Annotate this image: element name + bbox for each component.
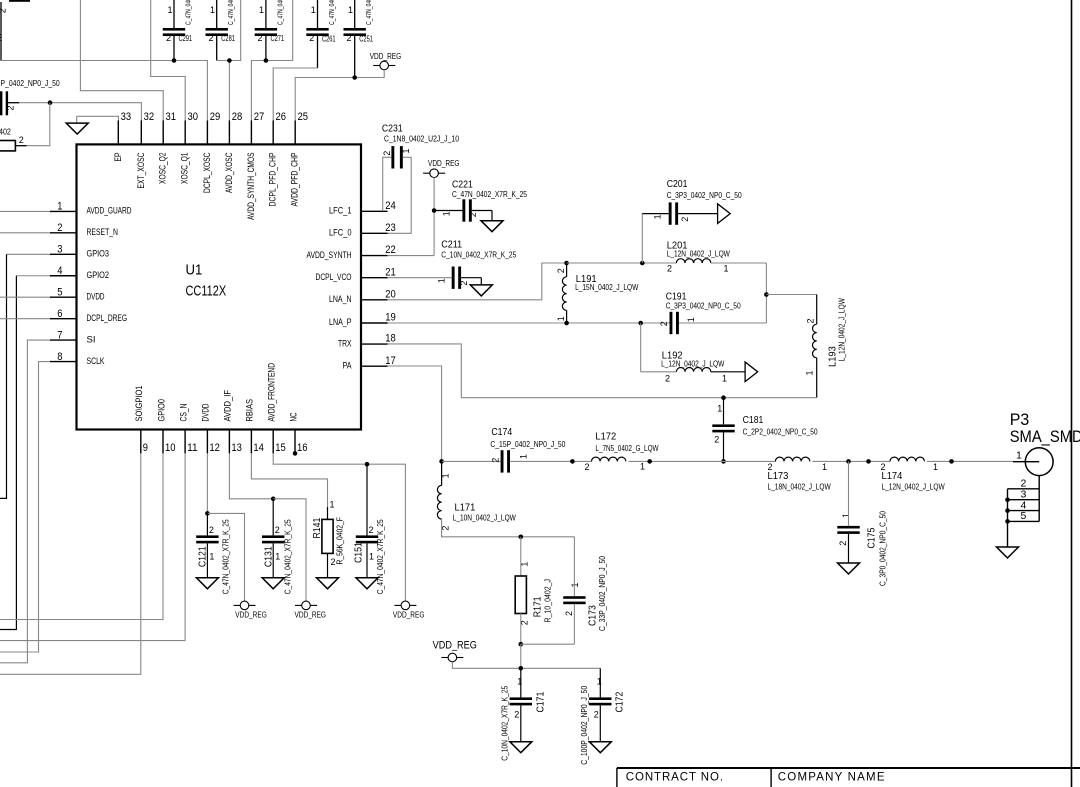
svg-text:12: 12 [209,442,220,454]
svg-text:L_7N5_0402_G_LQW: L_7N5_0402_G_LQW [595,444,659,453]
ground (C121) [196,578,218,589]
svg-text:2: 2 [490,458,500,463]
svg-text:AVDD_SYNTH_CMOS: AVDD_SYNTH_CMOS [246,153,256,221]
svg-text:XOSC_Q1: XOSC_Q1 [180,153,190,185]
svg-text:13: 13 [231,442,242,454]
junction R171 bottom [519,642,524,647]
junction XOSC node [48,100,53,105]
svg-text:1: 1 [330,500,335,510]
power symbol VDD_REG (under C121) [234,604,241,606]
svg-text:AVDD_SYNTH: AVDD_SYNTH [307,250,352,260]
svg-text:30: 30 [188,111,199,123]
ground (C172) [589,742,611,753]
svg-text:CC112X: CC112X [186,283,227,300]
svg-text:17: 17 [385,355,396,367]
svg-text:8: 8 [57,351,62,363]
svg-text:L_12N_0402_J_LQW: L_12N_0402_J_LQW [882,483,946,492]
svg-text:VDD_REG: VDD_REG [428,158,460,168]
svg-text:1: 1 [369,552,374,562]
svg-text:VDD_REG: VDD_REG [235,610,266,620]
svg-text:2: 2 [346,33,351,43]
svg-text:1: 1 [722,373,727,383]
U1 right pin stubs [361,210,388,212]
svg-text:L173: L173 [768,471,789,482]
ground (C175) [838,563,860,574]
svg-text:1: 1 [441,211,451,216]
svg-text:C231: C231 [382,123,403,134]
svg-text:25: 25 [298,111,309,123]
svg-text:C291: C291 [179,34,193,43]
svg-text:2: 2 [0,32,3,44]
U1 top pin stubs [117,120,119,144]
ground (C151) [356,578,378,589]
svg-text:VDD_REG: VDD_REG [370,51,402,61]
svg-text:1: 1 [841,513,851,518]
svg-text:2: 2 [257,33,262,43]
P3 shield pins 2-5 [1038,476,1040,522]
svg-text:33: 33 [121,111,132,123]
svg-text:C201: C201 [667,179,688,190]
svg-text:R171: R171 [532,596,543,617]
wire pin 33 EP to ground [77,116,119,120]
wire pin 3 GPIO3 [7,253,51,255]
wire to VDD_REG (C121) [207,513,244,601]
wire pin 18 TRX net [388,344,817,398]
svg-text:C_1N8_0402_U2J_J_10: C_1N8_0402_U2J_J_10 [384,135,459,144]
svg-text:1: 1 [348,5,353,15]
junction PA node [439,459,444,464]
wire pin 20 LNA_N to L191 top [388,263,567,300]
svg-text:DCPL_PFD_CHP: DCPL_PFD_CHP [268,153,278,207]
svg-text:1: 1 [311,5,316,15]
svg-text:1: 1 [167,5,172,15]
svg-text:LNA_N: LNA_N [329,294,352,304]
wire L192 branch down [640,323,642,372]
svg-text:29: 29 [210,111,221,123]
wire pin 31 XOSC_Q2 net [80,0,163,120]
svg-text:C_3P3_0402_NP0_C_50: C_3P3_0402_NP0_C_50 [666,302,741,311]
U1 left pin stubs [50,210,77,212]
title block [617,767,1080,769]
svg-text:C_47N_0402_X7R_K_25: C_47N_0402_X7R_K_25 [376,519,385,594]
ground (P3) [997,547,1019,558]
svg-text:1: 1 [519,454,529,459]
junction C131 [271,497,276,502]
svg-text:DVDD: DVDD [87,291,105,301]
svg-text:5: 5 [57,286,62,298]
svg-text:18: 18 [385,333,396,345]
svg-text:C131: C131 [263,546,274,567]
svg-text:L174: L174 [882,471,903,482]
svg-text:7: 7 [57,329,62,341]
svg-text:C_33P_0402_NP0_J_50: C_33P_0402_NP0_J_50 [598,556,607,631]
svg-text:28: 28 [232,111,243,123]
svg-text:1: 1 [805,370,815,375]
capacitor C121 [206,513,208,535]
junction under C291 [172,58,177,63]
svg-text:2: 2 [594,710,599,720]
svg-text:DCPL_XOSC: DCPL_XOSC [202,152,212,193]
wire pin 4 GPIO2 [16,275,50,277]
svg-text:1: 1 [556,316,566,321]
capacitor C151 [366,464,368,535]
svg-text:3: 3 [57,244,62,256]
svg-text:2: 2 [309,33,314,43]
svg-text:11: 11 [187,442,198,454]
svg-text:C_47N_0402_X7R_K_25: C_47N_0402_X7R_K_25 [277,0,284,25]
svg-text:24: 24 [385,200,396,212]
svg-text:1: 1 [517,677,522,687]
svg-text:C151: C151 [354,542,365,563]
wire LNA_N line to L201/C201 [567,262,677,264]
svg-text:VDD_REG: VDD_REG [433,639,477,651]
svg-text:R_10_0402_J: R_10_0402_J [543,579,552,623]
junction pin 28 [227,58,232,63]
svg-text:RBIAS: RBIAS [245,399,255,422]
junction L193 branch [764,292,769,297]
svg-text:1: 1 [570,582,580,587]
svg-text:L_12N_0402_J_LQW: L_12N_0402_J_LQW [837,298,846,362]
svg-text:2: 2 [806,318,816,323]
svg-text:32: 32 [144,111,155,123]
svg-text:C211: C211 [441,239,462,250]
wire VDD rail to pin 29 DCPL_XOSC [0,61,207,121]
wire pin 17 PA net [388,366,442,461]
svg-text:SO\GPIO1: SO\GPIO1 [134,386,144,422]
svg-text:2: 2 [514,710,519,720]
svg-text:L172: L172 [595,431,616,442]
junction C201 branch [640,261,645,266]
svg-text:L_15N_0402_J_LQW: L_15N_0402_J_LQW [575,283,639,292]
wire pin 28 AVDD_XOSC net [217,0,241,61]
svg-text:2: 2 [585,462,590,472]
junction C181 top [721,395,726,400]
svg-text:C174: C174 [491,427,512,438]
wire pin 14 RBIAS to R141 [251,453,327,507]
junction after L172 [647,459,652,464]
wire pin 30 XOSC_Q1 net [151,0,186,120]
svg-text:C221: C221 [452,179,473,190]
svg-text:LNA_P: LNA_P [329,317,352,327]
svg-text:1: 1 [822,462,827,472]
svg-text:C_47N_0402_X7R_K_25: C_47N_0402_X7R_K_25 [329,0,336,25]
svg-text:DCPL_VCO: DCPL_VCO [316,272,352,282]
wire pin 11 CS_N [0,453,185,640]
svg-text:31: 31 [166,111,177,123]
svg-text:2: 2 [838,541,848,546]
wire pin 5 DVDD [0,296,50,298]
svg-text:C_47N_0402_X7R_K_25: C_47N_0402_X7R_K_25 [452,190,527,199]
ground (C131) [262,578,284,589]
capacitor C261 [317,0,319,28]
svg-text:2: 2 [57,222,62,234]
op-amp U1 chip body CC112X [77,144,362,429]
svg-text:1: 1 [401,148,411,153]
svg-text:C_2P2_0402_NP0_C_50: C_2P2_0402_NP0_C_50 [743,428,818,437]
wire resistor to XOSC node [27,103,50,146]
svg-text:1: 1 [1016,449,1022,461]
svg-text:C121: C121 [198,546,209,567]
ground (C211) [480,278,482,285]
svg-text:2: 2 [680,217,690,222]
svg-text:XOSC_Q2: XOSC_Q2 [158,153,168,185]
svg-text:27: 27 [254,111,265,123]
capacitor C251 [354,0,356,28]
svg-text:L_12N_0402_J_LQW: L_12N_0402_J_LQW [661,360,725,369]
svg-text:VDD_REG: VDD_REG [393,610,425,620]
wire VDD_REG to pin 22 AVDD_SYNTH [433,178,435,256]
off-page connector (L192) [745,362,758,382]
svg-text:C171: C171 [535,691,546,712]
U1 bottom pin stubs [140,430,142,454]
svg-text:1: 1 [717,404,722,414]
svg-text:1: 1 [653,214,663,219]
svg-text:L_10N_0402_J_LQW: L_10N_0402_J_LQW [453,514,517,523]
wire pin 13 AVDD_IF to C131 [229,453,273,498]
svg-text:C_15P_0402_NP0_J_50: C_15P_0402_NP0_J_50 [490,440,565,449]
wire pin 12 DVDD to C121 [206,453,208,513]
junction C221 [432,208,437,213]
svg-text:2: 2 [714,434,719,444]
junction C151 [365,462,370,467]
svg-text:1: 1 [441,473,451,478]
svg-text:GPIO2: GPIO2 [87,270,110,280]
capacitor C301 (partial, top-left corner) [9,0,30,2]
svg-text:EP: EP [113,153,123,162]
junction R171 top [519,535,524,540]
wire branch to L193 [766,294,816,296]
svg-text:RESET_N: RESET_N [87,227,119,237]
svg-text:SMA_SMD: SMA_SMD [1010,428,1080,446]
ground (C171) [510,742,532,753]
svg-text:GPIO0: GPIO0 [156,399,166,422]
svg-text:14: 14 [253,442,264,454]
svg-text:C181: C181 [743,415,764,426]
svg-text:1: 1 [275,552,280,562]
svg-text:C_47N_0402_X7R_K_25: C_47N_0402_X7R_K_25 [222,519,231,594]
svg-text:1: 1 [686,317,696,322]
wire L201 right down to C191 line [765,263,767,323]
capacitor C291 [173,0,175,28]
svg-text:C_3P3_0402_NP0_C_50: C_3P3_0402_NP0_C_50 [667,191,742,200]
svg-text:NC: NC [288,412,298,421]
svg-text:C_47N_0402_X7R_K_25: C_47N_0402_X7R_K_25 [366,0,373,25]
svg-text:C_47N_0402_X7R_K_25: C_47N_0402_X7R_K_25 [284,519,293,594]
wire pin 15 AVDD_FRONTEND to C151 and VDD_REG [273,453,405,601]
svg-text:U1: U1 [186,262,203,279]
svg-text:C_10N_0402_X7R_K_25: C_10N_0402_X7R_K_25 [500,685,509,760]
off-page connector (C201) [718,204,731,224]
svg-text:L_18N_0402_J_LQW: L_18N_0402_J_LQW [768,483,832,492]
svg-text:EXT_XOSC: EXT_XOSC [136,152,146,188]
svg-text:LFC_0: LFC_0 [329,228,352,238]
junction under C271 [264,58,269,63]
svg-text:20: 20 [385,288,396,300]
svg-text:2: 2 [275,525,280,535]
svg-text:C251: C251 [359,35,373,44]
junction P3 pin 4 [1005,508,1010,513]
svg-text:P3: P3 [1010,411,1029,429]
wire pin 32 EXT_XOSC net [19,103,141,121]
svg-text:2: 2 [519,620,529,625]
svg-text:1: 1 [57,201,62,213]
svg-text:C173: C173 [587,605,598,626]
wire VDD_REG rail [452,662,600,669]
svg-text:1: 1 [640,461,645,471]
svg-text:1: 1 [597,677,602,687]
svg-text:C_100P_0402_NP0_J_50: C_100P_0402_NP0_J_50 [580,685,589,764]
wire pin 10 GPIO0 [0,453,163,619]
ground (C221) [491,211,493,221]
capacitor C281 [216,0,218,28]
svg-text:15: 15 [275,442,286,454]
svg-text:2: 2 [208,33,213,43]
junction before P3 [949,459,954,464]
svg-text:2: 2 [768,462,773,472]
page border right [1071,0,1073,787]
no-connect pin 16 [293,451,298,456]
svg-text:2: 2 [556,268,566,273]
wire pin 6 DCPL_DREG [0,318,50,320]
wire pin 1 AVDD_GUARD [0,210,50,212]
svg-text:R_56K_0402_F: R_56K_0402_F [336,517,345,564]
wire pin 27 AVDD_SYNTH_CMOS net [251,0,292,120]
svg-text:1: 1 [210,5,215,15]
svg-text:VDD_REG: VDD_REG [295,610,327,620]
junction C175 [846,459,851,464]
capacitor C131 [272,499,274,536]
junction P3 pin 3 [1005,497,1010,502]
svg-text:1: 1 [209,552,214,562]
svg-text:C281: C281 [221,34,235,43]
svg-text:2: 2 [665,373,670,383]
svg-text:26: 26 [276,111,287,123]
svg-text:9: 9 [143,442,148,454]
svg-text:2: 2 [166,33,171,43]
svg-text:1: 1 [933,462,938,472]
svg-text:C261: C261 [322,35,336,44]
wire pin 2 RESET_N [0,232,50,234]
power symbol VDD_REG (under C131) [295,604,302,606]
svg-text:C_10N_0402_X7R_K_25: C_10N_0402_X7R_K_25 [441,250,516,259]
wire pin 26 DCPL_PFD_CHP net [273,68,317,120]
svg-text:5: 5 [1021,510,1027,522]
svg-text:2: 2 [441,526,451,531]
svg-text:10: 10 [165,442,176,454]
wire pin 7 SI [0,340,50,663]
svg-text:2: 2 [881,462,886,472]
wire to VDD_REG (C131) [273,499,306,602]
wire pin 19 LNA_P to L191 bottom [388,322,567,324]
svg-text:2: 2 [564,611,574,616]
svg-text:2: 2 [369,525,374,535]
svg-text:DVDD: DVDD [201,403,211,421]
svg-text:SI: SI [87,334,96,344]
junction C181 bottom [721,459,726,464]
svg-text:C_47N_0402_X7R_K_25: C_47N_0402_X7R_K_25 [186,0,193,25]
junction L192 branch [638,321,643,326]
svg-text:19: 19 [385,312,396,324]
junction L191 bottom [564,321,569,326]
svg-text:23: 23 [385,222,396,234]
ground symbol near pin 33 [76,116,78,123]
svg-text:21: 21 [385,266,396,278]
svg-text:LFC_1: LFC_1 [329,206,352,216]
wire C201 branch up [641,214,643,263]
svg-text:2: 2 [667,264,672,274]
junction after C175 tap [866,459,871,464]
svg-text:L171: L171 [455,503,476,514]
wire pin 25 AVDD_PFD_CHP to VDD_REG [295,70,384,121]
junction C121 [205,511,210,516]
svg-text:R141: R141 [312,517,323,538]
svg-text:16: 16 [297,442,308,454]
junction P3 pin 5 [1005,519,1010,524]
svg-text:2: 2 [19,135,24,145]
svg-text:C271: C271 [271,34,285,43]
svg-text:2: 2 [209,525,214,535]
junction under C251 [352,75,357,80]
svg-text:22: 22 [385,244,396,256]
svg-text:AVDD_GUARD: AVDD_GUARD [87,206,132,216]
svg-text:2: 2 [6,105,16,110]
svg-text:C172: C172 [614,691,625,712]
svg-text:1: 1 [724,264,729,274]
svg-text:AVDD_PFD_CHP: AVDD_PFD_CHP [290,153,300,207]
svg-text:2: 2 [382,151,392,156]
svg-text:1: 1 [437,278,447,283]
svg-text:SCLK: SCLK [87,356,106,366]
svg-text:TRX: TRX [338,338,352,348]
ground (R141) [317,578,339,589]
junction after C174 [570,459,575,464]
svg-text:CONTRACT NO.: CONTRACT NO. [626,772,724,784]
svg-text:C175: C175 [866,527,877,548]
svg-text:GPIO3: GPIO3 [87,249,110,259]
svg-text:C_3P0_0402_NP0_C_50: C_3P0_0402_NP0_C_50 [879,511,888,586]
main RF line [442,460,501,462]
svg-text:AVDD_IF: AVDD_IF [223,390,233,422]
svg-text:CS_N: CS_N [178,404,188,422]
svg-text:PA: PA [343,360,353,370]
wire pin 8 SCLK [0,362,50,652]
power symbol VDD_REG (right of C151) [394,604,401,606]
capacitor C271 [265,0,267,28]
junction L191 top [564,261,569,266]
svg-text:4: 4 [57,265,62,277]
svg-text:2: 2 [459,281,469,286]
svg-text:AVDD_XOSC: AVDD_XOSC [224,152,234,193]
svg-text:6: 6 [57,308,62,320]
junction C171 [519,666,524,671]
svg-text:402: 402 [0,128,11,137]
svg-text:DCPL_DREG: DCPL_DREG [87,313,128,323]
wire pin 9 SO/GPIO1 [0,453,141,674]
svg-text:P_0402_NP0_J_50: P_0402_NP0_J_50 [1,79,61,88]
svg-text:2: 2 [468,212,478,217]
svg-text:L_12N_0402_J_LQW: L_12N_0402_J_LQW [667,250,731,259]
svg-text:COMPANY NAME: COMPANY NAME [778,772,886,784]
svg-text:2: 2 [659,321,669,326]
svg-text:1: 1 [259,5,264,15]
svg-text:C_47N_0402_X7R_K_25: C_47N_0402_X7R_K_25 [228,0,235,25]
svg-text:AVDD_FRONTEND: AVDD_FRONTEND [267,363,277,422]
